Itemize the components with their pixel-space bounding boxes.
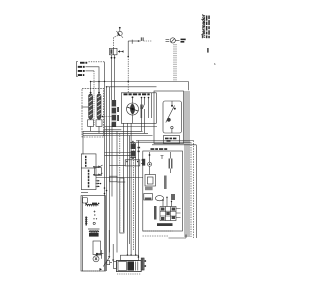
oven cavity box bbox=[82, 88, 104, 137]
timer oval bbox=[155, 196, 163, 201]
wire bundle v11 bbox=[137, 141, 139, 258]
coil box bbox=[93, 241, 101, 255]
bobbin rect bbox=[171, 194, 175, 200]
sheet note text bbox=[207, 48, 208, 53]
control box bbox=[143, 151, 183, 231]
terminal dark row bbox=[157, 223, 173, 226]
selector side rect bbox=[95, 168, 102, 176]
clock contact circle bbox=[93, 222, 95, 224]
mid bus 3 bbox=[83, 135, 153, 137]
relay R2 bbox=[93, 255, 99, 262]
mid bus 1 bbox=[83, 130, 143, 132]
right vertical group bbox=[185, 91, 196, 238]
inline connectors bbox=[117, 107, 119, 121]
svg-text:b: b bbox=[214, 62, 216, 66]
transformer T1 bbox=[88, 229, 100, 237]
dashed drop from lamp bbox=[174, 44, 176, 82]
clock coil row bbox=[85, 203, 99, 206]
mid bus 2 bbox=[83, 132, 148, 134]
dashed bus from terminal 1 bbox=[89, 61, 105, 63]
clock corner module bbox=[83, 198, 88, 204]
thermostat body bbox=[163, 101, 182, 133]
contact bar bbox=[154, 206, 157, 220]
clock small marks bbox=[93, 211, 97, 220]
selector text col 1 bbox=[85, 156, 87, 167]
cross wire mid 3 bbox=[117, 181, 125, 183]
clock box bbox=[81, 196, 106, 271]
selector contact cluster 2 bbox=[93, 173, 103, 176]
thermostat label bar bbox=[164, 136, 180, 144]
terminal list bracket bbox=[77, 62, 79, 77]
wire fan right bbox=[151, 93, 153, 118]
selector text col 2 bbox=[88, 170, 90, 188]
svg-text:Thermador: Thermador bbox=[201, 14, 206, 38]
wire between elements bbox=[93, 88, 95, 126]
bus N bbox=[104, 81, 157, 271]
dashed stub left bbox=[102, 116, 112, 118]
junction box small bbox=[110, 176, 117, 182]
model text line 1 bbox=[206, 16, 208, 39]
wire lamp line down to fan box bbox=[127, 41, 129, 93]
cross wire mid bbox=[96, 177, 143, 179]
neutral vertical bbox=[104, 62, 106, 271]
fan switch S2 bbox=[133, 97, 146, 134]
control box label bbox=[151, 148, 168, 150]
thermal fuse TF bbox=[132, 40, 139, 44]
lamp label bbox=[181, 39, 186, 43]
terminal label GRN bbox=[78, 74, 85, 76]
clock resistor ticks bbox=[85, 217, 88, 226]
terminal strip TB2 bbox=[130, 141, 140, 159]
capacitor C1 bbox=[161, 152, 172, 173]
motor mounting dashes bbox=[117, 273, 141, 275]
right cross wires bbox=[136, 141, 196, 145]
broil element bbox=[89, 81, 93, 119]
cross wires mid-left bbox=[105, 153, 131, 156]
indicator light L1 bbox=[166, 38, 180, 43]
element terminal blocks bbox=[88, 119, 102, 133]
fan box inner wire bbox=[148, 97, 150, 118]
fan return wires bbox=[105, 127, 158, 130]
wire bundle v2 bbox=[111, 123, 113, 196]
terminal label RED bbox=[78, 70, 85, 72]
hatched strip bbox=[164, 176, 167, 190]
wire terminal 3 bbox=[86, 71, 95, 88]
motor terminals bbox=[127, 254, 140, 258]
bake element bbox=[97, 81, 101, 119]
selector contact cluster 1 bbox=[93, 165, 103, 168]
cable band bbox=[112, 100, 117, 127]
wire left drop bbox=[82, 131, 84, 154]
main bus L1 bbox=[91, 82, 189, 91]
selector box bbox=[81, 154, 96, 190]
wire element box left bbox=[82, 106, 89, 108]
interlock connector P1 bbox=[110, 48, 124, 55]
wire door switch to interlock bbox=[114, 36, 119, 49]
wire stubs right of clock box bbox=[96, 250, 103, 259]
wire arrow to motor bbox=[112, 244, 114, 262]
thermostat label text bbox=[165, 138, 176, 142]
control box bottom bracket bbox=[143, 231, 187, 238]
thermostat outer box bbox=[154, 91, 184, 144]
relay board cluster bbox=[160, 207, 181, 221]
wire terminal 2 bbox=[86, 67, 100, 93]
harness rect bbox=[120, 178, 124, 233]
fan motor M1 bbox=[127, 96, 139, 115]
terminal label BLK bbox=[80, 62, 87, 64]
fan box label bbox=[124, 93, 150, 95]
wire pair interlock to fan box bbox=[111, 55, 116, 100]
aux box mid bbox=[125, 160, 140, 166]
small module B bbox=[144, 194, 153, 201]
door latch switch S3 bbox=[107, 261, 112, 265]
motor left flange bbox=[114, 262, 117, 269]
door switch S1 bbox=[117, 27, 124, 38]
hatch pad bbox=[145, 187, 153, 190]
clock box bottom bbox=[82, 268, 102, 271]
small module A bbox=[145, 175, 156, 187]
relay R1 bbox=[141, 152, 151, 175]
wire bundle v10 bbox=[133, 143, 135, 250]
diagonal wire bbox=[103, 230, 110, 267]
wire bundle v5 bbox=[123, 123, 125, 232]
wire bundle v7 bbox=[128, 136, 130, 245]
dashed right vertical bbox=[193, 141, 195, 239]
wire stubs above cluster bbox=[162, 197, 172, 207]
motor right flange bbox=[141, 258, 146, 270]
page mark b bbox=[214, 62, 216, 66]
wire bundle v8 bbox=[130, 123, 132, 255]
wire bundle v4 bbox=[119, 133, 121, 232]
Thermador logo bbox=[201, 14, 206, 38]
wire bundle v6 bbox=[126, 123, 128, 255]
cross wire mid 2 bbox=[110, 165, 126, 167]
wire bundle v9 bbox=[135, 143, 137, 255]
top wire to lamp bbox=[128, 40, 152, 42]
fan box bbox=[121, 93, 156, 124]
wire above clock box bbox=[81, 187, 107, 194]
thermostat switch bbox=[166, 101, 176, 133]
wire bundle v1 bbox=[109, 87, 111, 253]
terminal label WHT bbox=[78, 66, 85, 68]
model text line 2 bbox=[208, 16, 210, 39]
wire bundle v3 bbox=[116, 131, 118, 252]
selector contact cluster 3 bbox=[96, 180, 102, 188]
blower motor M2 bbox=[116, 255, 141, 271]
plug marks bbox=[141, 37, 143, 41]
